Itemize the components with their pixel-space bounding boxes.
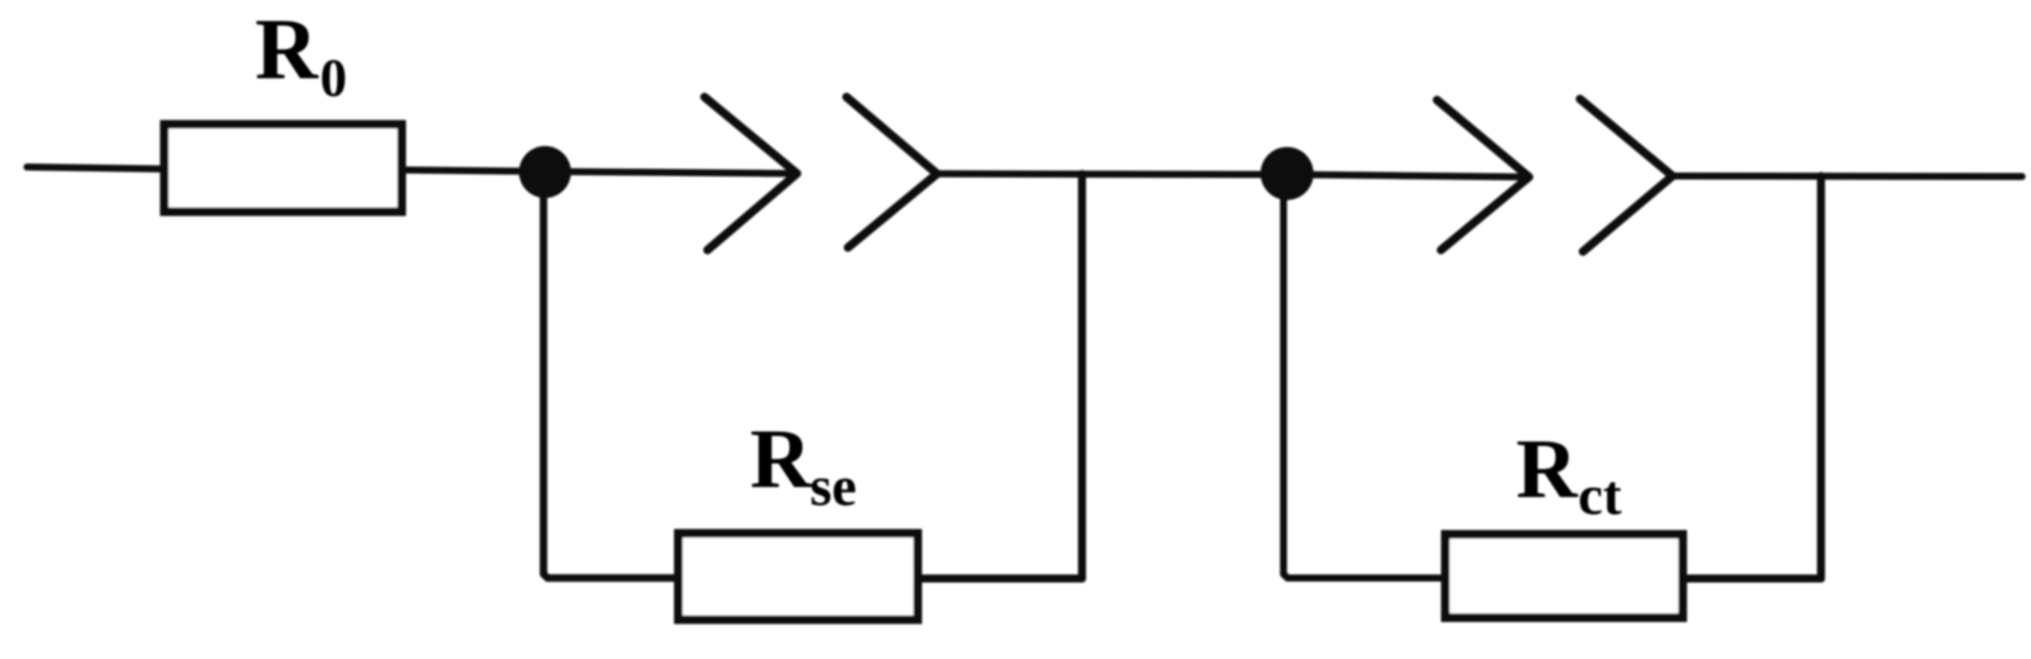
label Rct (1516, 422, 1622, 527)
wire W6 from Rse to riser 1 (922, 575, 1082, 583)
wire W11 node B to CPE2 apex (1288, 175, 1529, 178)
label R0 (255, 0, 347, 108)
CPE2 chevron 2 (1580, 99, 1673, 252)
wire W5 node A down branch to Rse (544, 172, 679, 578)
resistor R0 body (164, 124, 401, 211)
resistor Rse body (678, 533, 917, 619)
resistor Rct body (1445, 534, 1682, 617)
wire W1 left lead into R0 (27, 167, 168, 169)
wire W12 from CPE2 apex to right lead end (1673, 173, 2023, 181)
label Rse (750, 412, 857, 518)
CPE2 chevron 1 (1437, 100, 1529, 250)
CPE1 chevron 2 (847, 97, 938, 248)
wire W7 riser 1 up to top wire (1078, 174, 1086, 579)
svg-text:R: R (1516, 422, 1579, 516)
CPE1 chevron 1 (705, 97, 798, 250)
svg-text:0: 0 (320, 48, 347, 108)
wire W9 from Rct to riser 2 (1687, 575, 1821, 583)
wire W3 from node A to CPE1 apex (546, 172, 797, 174)
node B junction dot (1261, 147, 1314, 200)
wire W4 from CPE1 to node B (through riser junction) (937, 170, 1288, 178)
wire W2 from R0 to node A (406, 170, 546, 172)
svg-text:se: se (810, 456, 857, 518)
svg-text:ct: ct (1578, 465, 1622, 527)
wire W10 riser 2 up to top wire (1817, 176, 1825, 579)
svg-text:R: R (750, 412, 813, 506)
node A junction dot (519, 146, 571, 198)
wire W8 node B down branch to Rct (1284, 174, 1446, 578)
svg-text:R: R (255, 0, 319, 97)
